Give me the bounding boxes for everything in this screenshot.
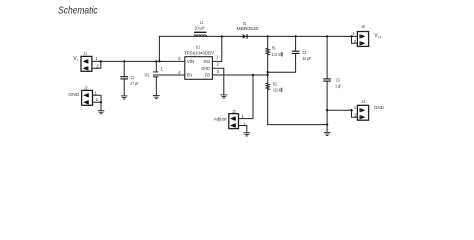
svg-text:J1: J1 (83, 51, 87, 56)
node C1 tap (123, 60, 125, 62)
wire J3 pin1 to FB (239, 75, 254, 119)
connector J3 Adjust (229, 109, 246, 129)
wire top rail (159, 35, 357, 37)
svg-text:JP1: JP1 (144, 73, 150, 78)
connector J1 (81, 51, 99, 71)
wire EN net (153, 74, 184, 76)
svg-text:J5: J5 (361, 24, 365, 29)
svg-text:C3: C3 (336, 77, 340, 82)
inductor L1 (194, 20, 207, 36)
svg-text:1: 1 (95, 90, 98, 95)
ground JP1 (153, 96, 159, 99)
resistor R1 (266, 36, 282, 72)
wire FB net (212, 74, 267, 76)
node C3/J4 (326, 109, 328, 111)
wire J5 tie (352, 36, 358, 43)
capacitor C1 (121, 61, 139, 95)
svg-text:4.7 µF: 4.7 µF (130, 81, 138, 86)
node J2 tie (100, 101, 102, 103)
wire VIN net J1 to U1 (92, 60, 185, 62)
svg-text:2: 2 (96, 63, 99, 68)
svg-text:FB: FB (205, 73, 210, 78)
svg-text:R2: R2 (273, 82, 277, 87)
IC U1 TPS61040DBV (178, 45, 219, 80)
wire J4 tie (352, 110, 358, 117)
svg-text:O: O (378, 36, 381, 40)
svg-text:U1: U1 (196, 45, 201, 50)
ground J2 (98, 111, 104, 114)
node SW riser (221, 35, 223, 37)
connector J2 (82, 85, 99, 105)
node C2 top (294, 35, 296, 37)
svg-text:J2: J2 (84, 85, 88, 90)
node FB to divider (267, 74, 269, 76)
node J4 tie (350, 109, 352, 111)
connector J4 GND out (354, 99, 369, 120)
jumper JP1 (144, 61, 163, 95)
node C2 stub (267, 71, 269, 73)
wire bottom rail (268, 124, 327, 126)
node bottom rail (326, 123, 328, 125)
node riser tap (158, 60, 160, 62)
connector J5 VO (352, 24, 368, 46)
node JP1 tap (155, 60, 157, 62)
svg-text:J4: J4 (361, 99, 365, 104)
wire riser to top rail (158, 36, 160, 61)
svg-text:GND: GND (201, 66, 210, 71)
svg-text:1: 1 (95, 56, 98, 61)
svg-text:I: I (77, 58, 78, 62)
wire J3 pin2 to gnd (239, 126, 247, 133)
svg-text:VIN: VIN (187, 59, 195, 64)
svg-text:1: 1 (354, 105, 357, 110)
svg-text:1: 1 (160, 66, 163, 71)
wire U1 GND drop (212, 68, 223, 94)
svg-text:162 k: 162 k (273, 88, 281, 93)
node R1 top (267, 35, 269, 37)
wire SW riser (212, 36, 221, 61)
ground J3 (244, 133, 250, 136)
svg-text:Adjust: Adjust (214, 116, 228, 122)
svg-text:GND: GND (68, 92, 80, 97)
ground C1 (121, 96, 127, 99)
svg-text:TPS61040DBV: TPS61040DBV (184, 50, 215, 55)
svg-text:10 µH: 10 µH (194, 25, 204, 30)
svg-text:1 µF: 1 µF (335, 83, 341, 88)
node J1 tie (100, 60, 102, 62)
svg-text:SW: SW (204, 59, 211, 64)
svg-text:2.21 M: 2.21 M (272, 52, 281, 57)
svg-text:C2: C2 (302, 50, 306, 55)
svg-text:2: 2 (96, 97, 99, 102)
resistor R2 (266, 82, 282, 125)
wire J1 pin2 tie (92, 61, 101, 68)
node J5 tie (350, 35, 352, 37)
svg-text:5: 5 (178, 56, 181, 61)
svg-text:J3: J3 (232, 109, 236, 114)
node C3 top (326, 35, 328, 37)
node J3 riser on FB (252, 74, 254, 76)
svg-text:1: 1 (352, 31, 355, 36)
svg-text:22 pF: 22 pF (302, 56, 311, 61)
ground bottom rail (324, 132, 330, 135)
svg-text:R1: R1 (272, 46, 276, 51)
svg-text:Schematic: Schematic (58, 6, 98, 17)
svg-text:L1: L1 (200, 20, 204, 25)
wire GND out to J4 (327, 109, 351, 111)
svg-text:2: 2 (216, 61, 219, 66)
wire J2 tie (93, 95, 102, 102)
svg-text:1: 1 (216, 54, 219, 59)
capacitor C3 (324, 36, 342, 124)
svg-text:4: 4 (178, 70, 181, 75)
capacitor C2 (292, 36, 311, 61)
wire C2 stub (268, 54, 296, 72)
svg-text:EN: EN (187, 73, 192, 78)
svg-text:C1: C1 (131, 75, 135, 80)
diode D1 (237, 21, 259, 39)
ground U1 GND (221, 95, 227, 98)
svg-text:3: 3 (217, 69, 220, 74)
svg-text:MBR0530: MBR0530 (237, 26, 259, 31)
svg-text:GND: GND (374, 105, 385, 110)
